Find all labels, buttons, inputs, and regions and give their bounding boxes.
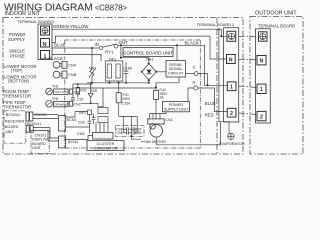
svg-text:2: 2 (260, 115, 263, 121)
bottom rail (87, 82, 149, 84)
serial signal circuit (166, 61, 186, 78)
svg-text:TH1: TH1 (52, 85, 59, 89)
svg-text:3.15A: 3.15A (122, 102, 132, 106)
svg-text:THERMISTOR: THERMISTOR (3, 93, 31, 98)
control board unit label (123, 48, 173, 57)
cluster generator (98, 108, 108, 114)
svg-text:1: 1 (230, 85, 233, 91)
capacitor C23 (72, 84, 74, 98)
wire RY1 out to NF1 (120, 45, 122, 57)
svg-text:CN1: CN1 (165, 118, 173, 122)
svg-text:(BOTTOM): (BOTTOM) (8, 79, 30, 84)
svg-text:CN2: CN2 (74, 90, 81, 94)
svg-text:BCN1: BCN1 (67, 118, 77, 122)
svg-text:CIRCUIT: CIRCUIT (168, 72, 184, 76)
svg-text:FAN MOTOR: FAN MOTOR (144, 140, 167, 144)
terminal board 1 N terminal (41, 39, 50, 48)
terminal board 1 terminal 1 (41, 51, 50, 60)
svg-text:TERMINAL BOARD1: TERMINAL BOARD1 (17, 19, 55, 24)
connector BCN1 (59, 116, 66, 132)
svg-text:POWER: POWER (169, 103, 184, 107)
rail B (73, 87, 156, 89)
svg-text:BCN201: BCN201 (6, 113, 20, 117)
svg-text:SUPPLY: SUPPLY (8, 37, 25, 42)
fan motor (150, 125, 163, 138)
power supply unit (162, 102, 189, 112)
wires BCN3 to CN5 area (66, 136, 93, 140)
svg-text:R76: R76 (80, 88, 86, 92)
svg-text:EVAPORATOR: EVAPORATOR (219, 142, 245, 146)
svg-text:CONTROL BOARD UNIT: CONTROL BOARD UNIT (123, 51, 173, 56)
terminal board 2 terminal 2 (227, 108, 236, 117)
receiver board unit (4, 111, 26, 143)
terminal board 2 N terminal (227, 55, 236, 64)
svg-text:N: N (229, 58, 233, 64)
interconnecting dash-dot wires (239, 35, 258, 37)
svg-text:1: 1 (260, 87, 263, 93)
svg-text:TERMINAL BOARD: TERMINAL BOARD (258, 24, 295, 29)
terminal board 2 terminal 1 (227, 82, 236, 91)
svg-text:RY1: RY1 (105, 50, 114, 55)
svg-text:N: N (193, 81, 196, 85)
svg-text:C14A: C14A (123, 67, 133, 71)
outdoor terminal 2 (257, 111, 266, 120)
svg-text:TH2: TH2 (52, 97, 59, 101)
svg-text:ORANGE: ORANGE (54, 103, 67, 107)
svg-text:2: 2 (230, 111, 233, 117)
resistor R76 (73, 83, 92, 85)
wire serial bottom to FU2 (156, 77, 179, 90)
wire RY1 out / black (118, 45, 227, 85)
outdoor earth terminal (259, 32, 268, 41)
svg-text:BOARD: BOARD (5, 125, 19, 129)
wire S to terminal 1 (198, 74, 207, 86)
svg-text:C28: C28 (78, 121, 85, 125)
svg-text:C23: C23 (77, 98, 83, 102)
svg-text:OUTDOOR UNIT: OUTDOOR UNIT (255, 11, 297, 17)
cluster generator connector (93, 133, 113, 140)
terminal board 1 earth terminal (41, 26, 50, 35)
svg-text:SERIAL: SERIAL (169, 63, 183, 67)
svg-text:CNB: CNB (68, 73, 76, 77)
wire N to terminal 2 (red) (198, 88, 228, 112)
svg-text:SSR: SSR (90, 89, 98, 93)
svg-text:250V: 250V (122, 97, 131, 101)
connector pair BCN201/CN102 (26, 112, 29, 121)
svg-text:BLUE: BLUE (54, 43, 66, 48)
terminal board 2 earth terminal (227, 31, 236, 41)
svg-text:GENERATOR: GENERATOR (94, 147, 118, 151)
outdoor terminal 1 (257, 84, 266, 93)
control board unit outline (65, 39, 201, 41)
svg-text:NR1: NR1 (89, 66, 97, 70)
svg-text:BLACK: BLACK (185, 41, 199, 46)
indoor unit boundary (3, 18, 243, 155)
wires BCN1 to NF2/C28 (66, 112, 88, 118)
svg-text:SUPPLY UNIT: SUPPLY UNIT (164, 108, 189, 112)
svg-text:RED: RED (205, 112, 214, 117)
fuse FU2 (154, 90, 159, 99)
cluster generator capacitor (93, 114, 95, 118)
svg-text:IN: IN (95, 42, 99, 47)
svg-text:C98: C98 (116, 131, 122, 135)
svg-text:RECEIVER: RECEIVER (5, 120, 25, 124)
wire fan motor to earth riser (155, 137, 157, 145)
svg-text:OUT: OUT (119, 40, 129, 45)
capacitors C99 C98 C97 C96 (115, 125, 144, 136)
wires BCN101 pair to BCN3 (33, 127, 50, 129)
svg-text:UNIT: UNIT (5, 130, 15, 134)
svg-text:N: N (260, 59, 264, 65)
svg-text:CNA: CNA (68, 63, 76, 67)
outdoor unit boundary (250, 17, 303, 155)
top rail to DB1 (121, 57, 149, 59)
svg-text:CN3: CN3 (74, 103, 81, 107)
evaporator (228, 133, 234, 139)
svg-text:GREEN-YELLOW: GREEN-YELLOW (53, 24, 89, 29)
indoor unit inner boundary (216, 18, 218, 155)
earth wire to evaporator (219, 29, 229, 133)
connector BCN3 (59, 136, 66, 148)
svg-text:SIGNAL: SIGNAL (169, 67, 183, 71)
svg-text:CN5: CN5 (77, 132, 85, 136)
connector CN1 (148, 119, 165, 124)
svg-text:1: 1 (44, 54, 47, 60)
svg-text:UNIT: UNIT (32, 146, 42, 150)
svg-text:TERMINAL BOARD 2: TERMINAL BOARD 2 (197, 22, 235, 27)
wires connector pairs to BCN1 (33, 114, 59, 116)
svg-text:2A: 2A (160, 96, 165, 100)
cluster generator label (87, 141, 124, 151)
svg-text:N: N (43, 42, 47, 48)
svg-text:(TOP): (TOP) (11, 68, 23, 73)
wire DB1 to serial circuit (156, 71, 166, 73)
svg-text:PHASE: PHASE (10, 54, 25, 59)
svg-text:CLUSTER: CLUSTER (97, 142, 115, 146)
outdoor N terminal (257, 56, 266, 65)
svg-text:DB1: DB1 (146, 58, 153, 62)
svg-text:INDOOR UNIT: INDOOR UNIT (5, 11, 41, 17)
svg-text:BLUE: BLUE (205, 101, 216, 106)
svg-text:CN102: CN102 (35, 113, 47, 117)
svg-text:BCN3: BCN3 (68, 140, 78, 144)
svg-text:THERMISTOR: THERMISTOR (3, 104, 31, 109)
N bus wire to terminal board 2 (52, 36, 227, 59)
fuse FU1 (118, 83, 120, 93)
display board unit (31, 130, 49, 153)
svg-text:BLACK: BLACK (49, 56, 63, 61)
svg-text:YELLOW: YELLOW (54, 90, 67, 94)
